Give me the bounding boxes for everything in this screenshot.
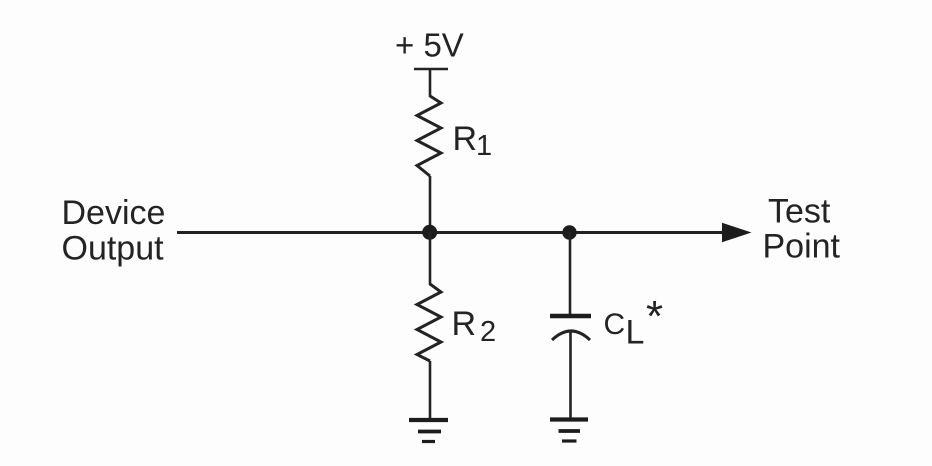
- capacitor CL top plate: [550, 314, 591, 319]
- svg-text:Device: Device: [62, 194, 166, 232]
- ground 1 bar 3: [422, 440, 435, 443]
- ground 2 bar 2: [559, 429, 581, 433]
- ground 1 bar 2: [418, 430, 441, 434]
- arrowhead at Test Point: [722, 223, 752, 242]
- svg-text:Test: Test: [768, 193, 831, 231]
- wire: CL bottom plate to ground 2: [569, 332, 572, 419]
- svg-text:C: C: [604, 308, 626, 341]
- power rail bar +5V: [414, 68, 448, 71]
- junction node A (dot): [422, 225, 437, 240]
- wire: +5V rail to R1 top: [429, 69, 432, 97]
- svg-text:*: *: [646, 292, 663, 341]
- svg-text:Output: Output: [62, 230, 165, 268]
- capacitor CL bottom plate (curved): [552, 331, 590, 340]
- svg-text:L: L: [626, 314, 645, 352]
- wire: Device Output to Test Point: [177, 231, 726, 234]
- resistor R2: [417, 284, 441, 361]
- resistor R1: [417, 96, 441, 176]
- svg-text:2: 2: [480, 316, 496, 348]
- svg-text:+ 5V: + 5V: [395, 27, 464, 64]
- wire: node B to CL top plate: [569, 232, 572, 314]
- junction node B (dot): [562, 225, 576, 239]
- ground 2 bar 3: [562, 439, 577, 442]
- wire: R1 bottom to node A: [429, 176, 432, 232]
- svg-text:Point: Point: [763, 228, 841, 266]
- ground 2 bar 1: [550, 417, 588, 421]
- svg-text:R: R: [452, 305, 477, 343]
- svg-text:R: R: [453, 120, 478, 158]
- svg-text:1: 1: [476, 130, 492, 162]
- wire: R2 bottom to ground 1: [429, 361, 432, 419]
- wire: node A to R2 top: [429, 232, 432, 285]
- ground 1 bar 1: [409, 418, 448, 422]
